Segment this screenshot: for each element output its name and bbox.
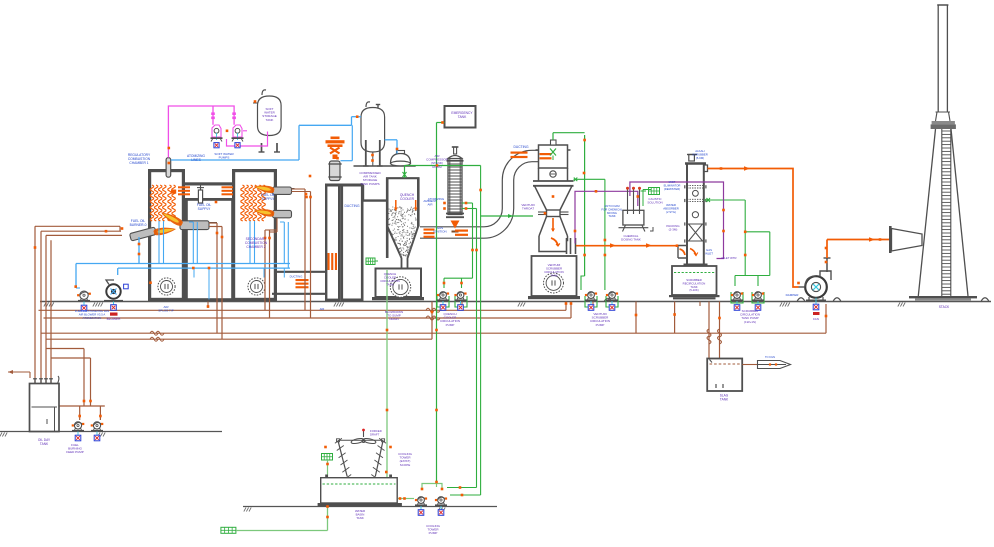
- svg-text:SUPPLY: SUPPLY: [198, 207, 212, 211]
- svg-text:CHAMBER 2: CHAMBER 2: [246, 245, 265, 249]
- svg-text:SPLGE TIP: SPLGE TIP: [158, 309, 173, 313]
- svg-text:ATOMIZATION: ATOMIZATION: [83, 316, 102, 320]
- svg-text:SUPPLY: SUPPLY: [262, 197, 276, 201]
- svg-text:(5-10K): (5-10K): [689, 288, 698, 292]
- svg-text:TANK: TANK: [608, 214, 615, 218]
- svg-text:TANK: TANK: [458, 115, 467, 119]
- svg-text:TANK: TANK: [356, 516, 364, 520]
- svg-text:STACK: STACK: [939, 305, 950, 309]
- svg-text:FEED PUMP: FEED PUMP: [66, 450, 84, 454]
- svg-text:TO KILN: TO KILN: [765, 355, 775, 359]
- svg-text:DUCTING: DUCTING: [344, 204, 359, 208]
- svg-text:BURNER-0: BURNER-0: [130, 223, 147, 227]
- svg-text:PUMP: PUMP: [446, 323, 455, 327]
- svg-text:PUMP: PUMP: [596, 323, 605, 327]
- svg-text:AIR: AIR: [320, 307, 325, 311]
- svg-text:AIR: AIR: [427, 203, 433, 207]
- svg-text:COOLER: COOLER: [400, 197, 415, 201]
- svg-text:ATOMIZING: ATOMIZING: [428, 197, 445, 201]
- svg-text:TANK PUMPS: TANK PUMPS: [360, 182, 379, 186]
- svg-text:(2 STG): (2 STG): [666, 210, 676, 214]
- svg-text:TANK: TANK: [266, 118, 274, 122]
- svg-text:IGNITION: IGNITION: [433, 230, 446, 234]
- svg-text:(1W+1S): (1W+1S): [744, 320, 756, 324]
- svg-text:DUCTING: DUCTING: [513, 145, 528, 149]
- svg-text:DUCTING: DUCTING: [290, 275, 303, 279]
- svg-text:THROAT: THROAT: [522, 207, 534, 211]
- svg-text:DRAIN: DRAIN: [389, 317, 398, 321]
- svg-text:ROOM: ROOM: [432, 165, 442, 169]
- svg-text:FAN: FAN: [813, 317, 819, 321]
- svg-text:(DEMISTER): (DEMISTER): [664, 187, 680, 191]
- svg-text:DOSING TANK: DOSING TANK: [621, 238, 641, 242]
- svg-text:TANK: TANK: [386, 283, 394, 287]
- svg-text:TANK: TANK: [550, 274, 558, 278]
- svg-text:TANK: TANK: [720, 397, 729, 401]
- svg-text:SCOPE: SCOPE: [400, 463, 411, 467]
- svg-text:SOLUTION: SOLUTION: [647, 201, 662, 205]
- svg-text:CHAMBER 1: CHAMBER 1: [129, 161, 148, 165]
- svg-text:(2-3M): (2-3M): [669, 228, 678, 232]
- svg-text:TANK: TANK: [40, 442, 49, 446]
- svg-text:INLET WTR: INLET WTR: [721, 256, 736, 260]
- svg-text:PUMP: PUMP: [429, 531, 438, 535]
- svg-text:DAMPER: DAMPER: [786, 293, 800, 297]
- svg-text:INLET: INLET: [705, 251, 713, 255]
- svg-text:PUMPS: PUMPS: [219, 156, 230, 160]
- svg-text:BLOWER: BLOWER: [107, 317, 122, 321]
- svg-text:LINES: LINES: [191, 158, 201, 162]
- svg-text:DRAFT: DRAFT: [370, 432, 380, 436]
- svg-text:(5-6M): (5-6M): [696, 156, 704, 160]
